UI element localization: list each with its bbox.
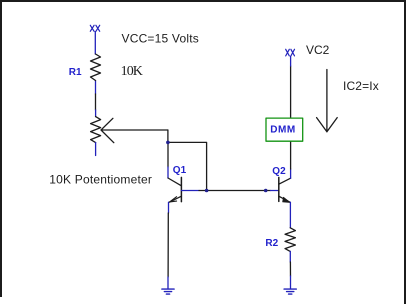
svg-text:R1: R1 xyxy=(69,67,82,78)
svg-text:VCC=15 Volts: VCC=15 Volts xyxy=(122,32,199,46)
svg-text:DMM: DMM xyxy=(270,125,295,136)
svg-text:IC2=Ix: IC2=Ix xyxy=(343,79,379,93)
svg-text:R2: R2 xyxy=(265,238,278,249)
svg-text:10K Potentiometer: 10K Potentiometer xyxy=(49,173,152,187)
svg-text:VC2: VC2 xyxy=(306,43,330,57)
svg-text:Q2: Q2 xyxy=(272,166,286,177)
svg-text:Q1: Q1 xyxy=(173,165,187,176)
svg-text:10K: 10K xyxy=(121,64,143,79)
